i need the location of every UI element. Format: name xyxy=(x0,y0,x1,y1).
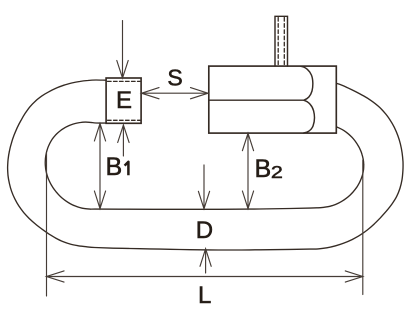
svg-text:2: 2 xyxy=(271,162,283,182)
svg-text:S: S xyxy=(167,65,182,91)
svg-text:B: B xyxy=(255,155,272,183)
svg-text:E: E xyxy=(116,87,132,114)
svg-text:L: L xyxy=(198,282,211,309)
svg-text:B: B xyxy=(106,153,123,181)
svg-text:D: D xyxy=(196,217,213,244)
